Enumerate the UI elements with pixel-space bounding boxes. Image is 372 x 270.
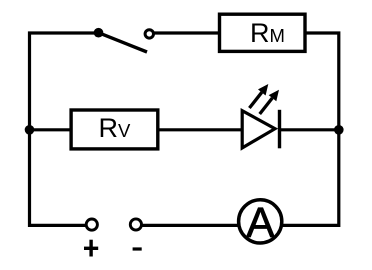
resistor RV body <box>71 110 158 149</box>
switch S open contact circle <box>145 30 153 38</box>
svg-text:A: A <box>246 200 275 247</box>
junction node: switch pivot dot <box>94 28 104 38</box>
junction node: left rail to RV dot <box>25 125 35 135</box>
LED D triangle (anode) <box>242 111 275 148</box>
wire: resistor RV to LED anode <box>156 128 243 131</box>
switch S blade <box>99 33 148 52</box>
wire: left rail to resistor RV <box>30 128 74 131</box>
wire: LED cathode to right rail <box>279 128 339 131</box>
LED light arrow 2 shaft <box>260 98 273 114</box>
wire: terminal - to ammeter <box>141 224 262 227</box>
LED D cathode bar <box>278 110 281 149</box>
resistor RM body <box>220 14 306 51</box>
terminal + circle <box>86 219 97 230</box>
terminal - circle <box>130 219 141 230</box>
label + <box>84 240 98 257</box>
wire: top wire from switch pivot to top-left corner, left rail, bottom wire to terminal + <box>30 33 101 225</box>
wire: switch contact to resistor RM <box>154 31 223 34</box>
LED light arrow 1 head <box>258 84 268 96</box>
LED light arrow 2 head <box>269 90 279 102</box>
ammeter A body <box>239 200 282 243</box>
LED light arrow 1 shaft <box>249 92 261 108</box>
junction node: right rail to LED dot <box>334 125 344 135</box>
wire: resistor RM to top-right corner, right rail, bottom wire to ammeter <box>282 33 339 225</box>
label - <box>133 247 142 250</box>
